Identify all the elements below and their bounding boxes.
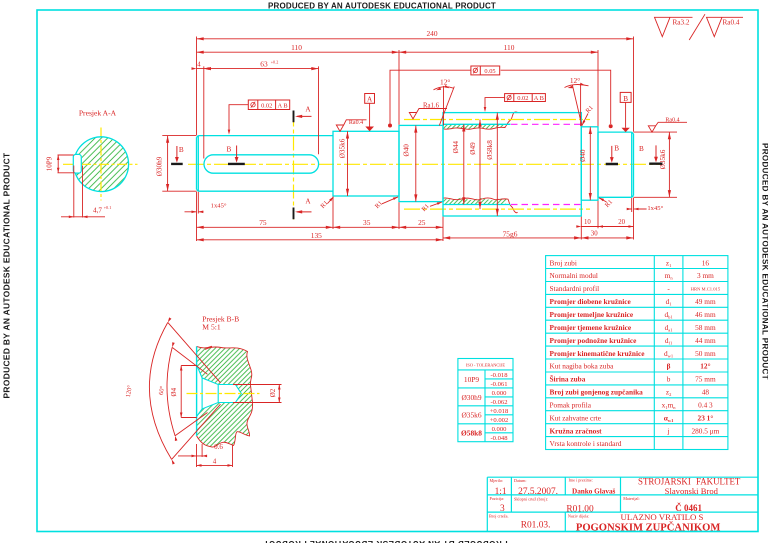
- svg-text:27.5.2007.: 27.5.2007.: [518, 487, 558, 497]
- svg-text:B: B: [623, 95, 628, 103]
- svg-text:Ø35k6: Ø35k6: [461, 411, 481, 420]
- svg-text:46 mm: 46 mm: [695, 310, 716, 319]
- svg-text:z1: z1: [666, 258, 672, 268]
- svg-text:R1: R1: [420, 203, 430, 213]
- svg-text:PRODUCED BY AN AUTODESK EDUCAT: PRODUCED BY AN AUTODESK EDUCATIONAL PROD…: [2, 152, 12, 399]
- svg-text:R01.03.: R01.03.: [521, 521, 551, 531]
- svg-text:Vrsta kontrole i standard: Vrsta kontrole i standard: [550, 439, 622, 448]
- svg-text:-0.062: -0.062: [490, 399, 507, 406]
- svg-text:Pomak profila: Pomak profila: [550, 401, 592, 410]
- svg-text:Ø35k6: Ø35k6: [659, 149, 667, 169]
- svg-text:Mjerilo:: Mjerilo:: [490, 478, 504, 483]
- svg-text:Normalni modul: Normalni modul: [550, 271, 598, 280]
- svg-text:Ra0.4: Ra0.4: [723, 18, 740, 26]
- svg-text:A: A: [305, 105, 311, 113]
- svg-text:16: 16: [702, 258, 710, 267]
- svg-text:120°: 120°: [125, 384, 134, 398]
- svg-text:Kut nagiba boka zuba: Kut nagiba boka zuba: [550, 362, 615, 371]
- svg-text:1x45°: 1x45°: [647, 205, 663, 212]
- svg-text:4: 4: [197, 61, 201, 68]
- svg-text:Promjer tjemene kružnice: Promjer tjemene kružnice: [550, 323, 632, 332]
- svg-text:75g6: 75g6: [503, 230, 518, 239]
- svg-text:-: -: [667, 284, 670, 293]
- svg-text:-0.061: -0.061: [490, 381, 507, 388]
- svg-text:ULAZNO VRATILO S: ULAZNO VRATILO S: [621, 512, 704, 522]
- svg-text:Ø4: Ø4: [170, 387, 178, 396]
- svg-text:240: 240: [426, 29, 437, 38]
- svg-text:75 mm: 75 mm: [695, 375, 716, 384]
- svg-text:23 1°: 23 1°: [698, 413, 714, 422]
- svg-text:+0.002: +0.002: [490, 417, 509, 424]
- svg-text:Slavonski Brod: Slavonski Brod: [665, 486, 719, 496]
- svg-text:ISO - TOLERANCIJE: ISO - TOLERANCIJE: [466, 363, 505, 368]
- svg-text:Broj crteža.: Broj crteža.: [489, 514, 509, 519]
- svg-text:POGONSKIM ZUPČANIKOM: POGONSKIM ZUPČANIKOM: [576, 521, 721, 534]
- svg-text:1x45°: 1x45°: [211, 203, 227, 210]
- svg-text:Kružna zračnost: Kružna zračnost: [550, 426, 603, 435]
- svg-text:+0.1: +0.1: [104, 205, 112, 210]
- svg-text:12°: 12°: [700, 362, 710, 371]
- svg-text:75: 75: [259, 218, 267, 227]
- svg-text:PRODUCED BY AN AUTODESK EDUCAT: PRODUCED BY AN AUTODESK EDUCATIONAL PROD…: [761, 143, 768, 380]
- svg-text:35: 35: [363, 218, 371, 227]
- svg-text:49 mm: 49 mm: [695, 297, 716, 306]
- svg-text:-0.018: -0.018: [490, 372, 508, 379]
- svg-text:R01.00: R01.00: [566, 505, 594, 515]
- svg-text:Promjer temeljne kružnice: Promjer temeljne kružnice: [550, 310, 634, 319]
- svg-text:da1: da1: [665, 323, 673, 333]
- svg-text:135: 135: [311, 231, 322, 240]
- svg-text:10P9: 10P9: [46, 156, 54, 171]
- svg-text:Promjer kinematične kružnice: Promjer kinematične kružnice: [550, 349, 646, 358]
- svg-text:d1: d1: [666, 297, 672, 307]
- svg-text:R1: R1: [374, 200, 384, 210]
- svg-text:Danko Glavaš: Danko Glavaš: [572, 487, 616, 495]
- svg-text:+0.018: +0.018: [490, 408, 509, 415]
- svg-text:A: A: [367, 96, 373, 104]
- svg-text:0.4 3: 0.4 3: [698, 401, 713, 410]
- svg-text:Ø49: Ø49: [469, 142, 477, 155]
- svg-text:110: 110: [504, 43, 515, 52]
- svg-text:Ra1.6: Ra1.6: [423, 103, 440, 110]
- svg-text:10: 10: [584, 219, 591, 226]
- svg-text:63: 63: [260, 59, 268, 68]
- svg-text:B: B: [639, 145, 644, 153]
- svg-text:50 mm: 50 mm: [695, 349, 716, 358]
- svg-text:30: 30: [591, 231, 598, 238]
- svg-text:Ra0.4: Ra0.4: [349, 120, 363, 126]
- svg-text:Ø2: Ø2: [269, 388, 277, 397]
- svg-text:HRN M.C1.015: HRN M.C1.015: [691, 286, 721, 291]
- svg-text:-0.048: -0.048: [490, 435, 508, 442]
- svg-text:10P9: 10P9: [464, 375, 480, 384]
- svg-text:3: 3: [500, 504, 505, 514]
- svg-text:Standardni profil: Standardni profil: [550, 284, 600, 293]
- svg-text:df1: df1: [665, 336, 672, 346]
- svg-text:Ø58k8: Ø58k8: [486, 140, 494, 160]
- svg-text:R1: R1: [319, 200, 329, 210]
- svg-text:A: A: [305, 198, 311, 206]
- svg-text:4,7: 4,7: [93, 206, 102, 214]
- svg-text:Kut zahvatne crte: Kut zahvatne crte: [550, 413, 601, 422]
- svg-text:Datum:: Datum:: [514, 478, 527, 483]
- svg-text:B: B: [179, 146, 184, 154]
- svg-text:0.02: 0.02: [261, 102, 272, 109]
- svg-text:Ø44: Ø44: [452, 141, 460, 154]
- svg-text:25: 25: [418, 218, 426, 227]
- svg-text:x1mn: x1mn: [662, 401, 677, 411]
- svg-text:Broj zubi: Broj zubi: [550, 258, 577, 267]
- svg-text:3 mm: 3 mm: [697, 271, 714, 280]
- svg-text:Ø58k8: Ø58k8: [461, 429, 482, 438]
- svg-text:αw1: αw1: [664, 413, 674, 423]
- svg-text:1:1: 1:1: [495, 487, 507, 497]
- svg-text:4: 4: [213, 458, 217, 466]
- svg-text:Promjer podnožne kružnice: Promjer podnožne kružnice: [550, 336, 638, 345]
- svg-text:0.000: 0.000: [492, 426, 508, 433]
- svg-text:Ø35k6: Ø35k6: [338, 138, 346, 158]
- svg-text:PRODUCED BY AN AUTODESK EDUCAT: PRODUCED BY AN AUTODESK EDUCATIONAL PROD…: [268, 2, 496, 11]
- svg-text:Materijal:: Materijal:: [623, 496, 640, 501]
- svg-text:12°: 12°: [440, 78, 450, 87]
- svg-text:PRODUCED BY AN AUTODESK EDUCAT: PRODUCED BY AN AUTODESK EDUCATIONAL PROD…: [263, 539, 507, 543]
- svg-text:A B: A B: [534, 95, 544, 102]
- svg-text:Ø30h9: Ø30h9: [461, 393, 481, 402]
- svg-text:R1: R1: [604, 199, 614, 209]
- svg-text:B: B: [227, 146, 232, 154]
- svg-text:dw1: dw1: [664, 349, 673, 359]
- svg-text:Ime i prezime:: Ime i prezime:: [569, 478, 593, 483]
- svg-text:20: 20: [618, 219, 625, 226]
- svg-text:Ra3.2: Ra3.2: [673, 18, 690, 26]
- svg-text:db1: db1: [665, 310, 673, 320]
- svg-text:A B: A B: [278, 102, 288, 109]
- svg-text:280.5 μm: 280.5 μm: [691, 426, 719, 435]
- svg-text:0.02: 0.02: [517, 95, 528, 102]
- svg-text:j: j: [667, 426, 670, 435]
- svg-text:mn: mn: [665, 271, 674, 281]
- svg-text:Ø40: Ø40: [403, 144, 411, 157]
- svg-text:B: B: [614, 145, 619, 153]
- svg-text:Ra0.4: Ra0.4: [665, 118, 679, 124]
- svg-text:Broj zubi gonjenog zupčanika: Broj zubi gonjenog zupčanika: [550, 388, 644, 397]
- svg-text:Ø30h9: Ø30h9: [155, 156, 163, 176]
- svg-text:β: β: [667, 362, 671, 371]
- svg-text:R1: R1: [585, 104, 595, 114]
- svg-text:Sklopni crtež (broj):: Sklopni crtež (broj):: [514, 496, 548, 501]
- svg-text:60°: 60°: [158, 385, 167, 395]
- svg-text:Presjek A-A: Presjek A-A: [79, 109, 117, 118]
- svg-text:58 mm: 58 mm: [695, 323, 716, 332]
- svg-text:0.000: 0.000: [492, 390, 508, 397]
- svg-text:b: b: [667, 375, 671, 384]
- svg-text:12°: 12°: [570, 76, 580, 85]
- svg-text:Promjer diobene kružnice: Promjer diobene kružnice: [550, 297, 632, 306]
- svg-text:Širina zuba: Širina zuba: [550, 374, 586, 384]
- svg-text:0.05: 0.05: [484, 68, 495, 75]
- svg-text:44 mm: 44 mm: [695, 336, 716, 345]
- svg-text:+0.2: +0.2: [271, 60, 279, 65]
- svg-text:0.6: 0.6: [214, 443, 223, 451]
- svg-text:Ø40: Ø40: [579, 149, 587, 162]
- svg-text:48: 48: [702, 388, 710, 397]
- svg-text:M 5:1: M 5:1: [202, 323, 221, 332]
- svg-text:110: 110: [291, 43, 302, 52]
- svg-text:z2: z2: [666, 388, 672, 398]
